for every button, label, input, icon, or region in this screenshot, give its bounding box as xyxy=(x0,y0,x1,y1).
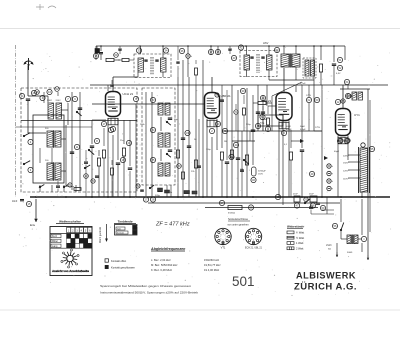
speaker terminal xyxy=(358,236,367,241)
svg-text:1: 1 xyxy=(253,233,254,235)
label LS13 xyxy=(326,245,332,251)
svg-text:25nF: 25nF xyxy=(309,194,314,196)
capacitor C41 xyxy=(240,170,244,171)
electrolytic C28 50uF xyxy=(251,167,266,183)
label ZF frequency xyxy=(155,222,190,228)
wire secondary bus xyxy=(148,202,340,204)
tube V1 UCH21 xyxy=(106,92,134,132)
oscillator coil LO1 xyxy=(150,97,170,115)
band switch contact S1b xyxy=(23,161,33,173)
svg-text:von unten gesehen: von unten gesehen xyxy=(227,224,249,227)
IF transformer IF2 can xyxy=(240,51,277,77)
IF2 primary coil xyxy=(244,55,250,70)
wire antenna lead xyxy=(27,66,29,96)
node 17 xyxy=(101,121,113,132)
tone cap can (dashed) xyxy=(303,58,316,78)
capacitor C23 xyxy=(225,130,234,197)
svg-text:Wellenschalter: Wellenschalter xyxy=(59,220,82,224)
rotary wafer switch view xyxy=(61,249,79,268)
svg-text:50/50µF: 50/50µF xyxy=(258,171,266,173)
wire osc box verticals xyxy=(146,92,161,196)
svg-text:6,3V: 6,3V xyxy=(336,73,341,75)
wire mains right xyxy=(368,89,370,255)
svg-text:Sockelanschlüsse: Sockelanschlüsse xyxy=(228,218,249,221)
wire AF rail 131 xyxy=(222,130,322,132)
electrolytic C21 xyxy=(179,46,192,77)
resistor wattage legend xyxy=(287,225,304,251)
wire stub y214 xyxy=(311,213,334,215)
wire AF line xyxy=(205,207,318,209)
wire bus x189 xyxy=(188,77,190,197)
svg-text:Instrumentenwiderstand 500Ω/V: Instrumentenwiderstand 500Ω/V, Spannunge… xyxy=(100,291,199,295)
net label HSV xyxy=(263,41,269,45)
wire V1 plate xyxy=(108,77,113,92)
wire inner verticals xyxy=(72,92,80,190)
wire pickup xyxy=(282,115,284,205)
capacitor C40 xyxy=(256,112,265,120)
svg-text:220V~: 220V~ xyxy=(343,156,350,158)
node 4 xyxy=(40,89,52,100)
pencil mark top xyxy=(36,4,56,10)
svg-text:6: 6 xyxy=(220,239,221,241)
svg-text:UCH 21: UCH 21 xyxy=(123,92,134,96)
svg-text:M: Bez. 505/1594 kHz: M: Bez. 505/1594 kHz xyxy=(151,263,178,267)
tube V4 UY1 xyxy=(336,109,361,144)
antenna coil L1 LW xyxy=(47,100,62,119)
padder capacitor xyxy=(70,144,80,153)
heading Abgleichfrequenzen xyxy=(150,247,186,251)
tube V2 UBF21 xyxy=(205,93,232,134)
svg-text:125V~: 125V~ xyxy=(343,171,350,173)
variable capacitor CV1 xyxy=(88,120,99,197)
svg-text:5: 5 xyxy=(253,239,254,241)
band switch contact S1a xyxy=(23,133,33,145)
svg-text:Takt: Takt xyxy=(117,227,121,230)
svg-text:7: 7 xyxy=(219,236,220,238)
antenna coil L3 KW xyxy=(45,160,61,181)
wire mid extra x167 xyxy=(167,185,171,197)
wire V1 pins xyxy=(108,118,118,197)
svg-text:4: 4 xyxy=(255,239,256,241)
mains tap 220V xyxy=(343,155,360,158)
label Antenne xyxy=(66,185,75,188)
capacitor C53 xyxy=(215,93,224,101)
tube socket VT1 xyxy=(215,228,231,244)
svg-text:Lang: Lang xyxy=(52,245,58,248)
wire V3 plate to OPT xyxy=(283,68,285,93)
wire front-end top xyxy=(28,96,48,133)
antenna xyxy=(23,58,34,70)
cap C35 xyxy=(316,203,326,211)
wire transformer bottom xyxy=(361,192,363,197)
wire mid extra x242 xyxy=(241,131,243,197)
capacitor C26 xyxy=(236,158,240,159)
svg-text:¼ Watt: ¼ Watt xyxy=(296,231,304,235)
wire stub x250 xyxy=(249,131,251,141)
output transformer OPT2 xyxy=(347,235,358,245)
capacitor C7 xyxy=(116,157,126,197)
capacitor block 3 xyxy=(184,191,197,195)
resistor R33 xyxy=(111,160,114,197)
wire V4 top xyxy=(335,85,350,109)
ground arrow chassis xyxy=(30,199,38,227)
svg-text:ECH 21, UBL 21: ECH 21, UBL 21 xyxy=(245,248,263,250)
frame dash-dot left border xyxy=(15,45,17,197)
mains tap 125V xyxy=(343,170,360,173)
svg-text:1 Watt: 1 Watt xyxy=(296,241,304,245)
svg-text:8: 8 xyxy=(220,234,221,236)
dark component top-left xyxy=(95,46,100,53)
model number 501 xyxy=(232,273,255,289)
svg-text:150/260 kHz: 150/260 kHz xyxy=(204,258,220,262)
IF2 secondary coil xyxy=(267,55,273,70)
cathode bypass C30 xyxy=(300,120,304,197)
label VT1 xyxy=(221,246,226,250)
wire bus x178 xyxy=(177,77,179,197)
svg-text:ZF = 477 kHz: ZF = 477 kHz xyxy=(155,222,190,228)
filter electrolytics xyxy=(324,151,340,191)
capacitor C31 25nF xyxy=(293,194,300,209)
wire grid feed xyxy=(92,119,106,121)
capacitor C45 xyxy=(261,106,265,131)
svg-text:2M: 2M xyxy=(224,141,227,143)
svg-text:19,5/4,77 kHz: 19,5/4,77 kHz xyxy=(204,263,221,267)
wire x272 drop xyxy=(271,96,273,131)
caption switch view xyxy=(52,269,90,273)
wire V3 pins xyxy=(279,121,289,198)
svg-text:6/15kΩ: 6/15kΩ xyxy=(228,213,235,215)
wire screen rail xyxy=(90,84,388,86)
V4 bottom node circles xyxy=(339,138,350,142)
scanner artifact line top xyxy=(0,28,400,30)
svg-text:Kontakt geschlossen: Kontakt geschlossen xyxy=(111,266,135,270)
heading Tonabnehmerbuchse xyxy=(227,218,250,227)
note line 1 xyxy=(100,284,192,288)
oscillator coil enclosure (dashed) xyxy=(142,88,175,185)
svg-text:4: 4 xyxy=(225,239,226,241)
svg-text:7: 7 xyxy=(250,236,251,238)
box pickup input xyxy=(258,115,283,132)
push switch table xyxy=(115,225,138,236)
alignment row M xyxy=(151,263,221,267)
svg-text:200C: 200C xyxy=(56,100,62,102)
wire AVC line xyxy=(21,120,137,122)
wire top left drop xyxy=(95,46,97,60)
node 40 xyxy=(215,121,227,133)
resistor R3 grid xyxy=(97,150,100,197)
IF1 primary coil xyxy=(138,58,144,72)
node 53 xyxy=(337,138,349,143)
svg-text:50nF: 50nF xyxy=(286,126,292,128)
wire chassis bus xyxy=(30,196,390,198)
svg-text:8: 8 xyxy=(251,234,252,236)
resistor R42 xyxy=(195,60,198,85)
wire det link xyxy=(232,140,255,142)
labels small values xyxy=(120,119,288,151)
svg-text:5: 5 xyxy=(222,239,223,241)
resistor R14 cathode xyxy=(220,120,223,197)
heater dropper cluster xyxy=(332,46,343,85)
wire left return xyxy=(16,126,93,128)
capacitor C1 antenna coupling xyxy=(19,90,36,133)
IF transformer IF1 can xyxy=(134,54,171,78)
svg-text:40µF: 40µF xyxy=(334,151,340,153)
svg-text:ALBISWERK: ALBISWERK xyxy=(296,271,356,281)
svg-text:Kontakt: Kontakt xyxy=(117,231,124,234)
node 7 xyxy=(65,96,77,101)
svg-text:25nF: 25nF xyxy=(293,194,298,196)
switch arm extra xyxy=(84,165,90,178)
svg-text:2 Watt: 2 Watt xyxy=(296,247,304,251)
wire left inner xyxy=(40,148,52,163)
node 42 xyxy=(231,45,243,61)
switch arm mid xyxy=(149,185,154,189)
fuse F1 xyxy=(361,143,375,152)
mains switch S2 xyxy=(332,222,343,230)
label 220k xyxy=(168,192,173,194)
mains tap 150V xyxy=(343,162,360,165)
label 500 xyxy=(347,252,353,254)
heading Wellenschalter xyxy=(56,220,84,224)
wire right end drop xyxy=(314,46,345,131)
capacitor C2 10nF xyxy=(12,200,32,207)
svg-text:6: 6 xyxy=(251,239,252,241)
wire x296 drop xyxy=(296,85,302,120)
IF2 trimmers xyxy=(250,57,264,58)
capacitor C52 xyxy=(136,184,144,191)
svg-text:Spannungen bei Mittelwellen g: Spannungen bei Mittelwellen gegen Chassi… xyxy=(100,284,192,288)
svg-text:10nF: 10nF xyxy=(12,201,18,203)
node pair right of V3 xyxy=(306,85,319,131)
scanner artifact line bottom xyxy=(0,309,400,311)
oscillator coil LO2 xyxy=(150,127,170,147)
IF1 core xyxy=(151,57,153,75)
svg-text:Tonblende: Tonblende xyxy=(117,220,132,224)
wire bus x183 xyxy=(182,60,184,197)
resistor R41 xyxy=(243,95,246,131)
capacitor C44 xyxy=(91,176,99,183)
wire IF2 drops xyxy=(247,46,270,80)
wire osc grid xyxy=(133,96,138,197)
wire left col extra xyxy=(35,87,60,103)
label 175V xyxy=(315,127,321,129)
svg-text:520p: 520p xyxy=(155,195,161,197)
resistor R40 xyxy=(68,183,81,191)
label 4.7nF xyxy=(300,83,312,97)
V4 top node circles xyxy=(341,94,351,103)
wire det column x258 xyxy=(258,85,263,131)
padder capacitor block 2 xyxy=(165,190,170,193)
diagonal wire AF xyxy=(272,82,302,96)
wire bus x196 xyxy=(195,85,197,197)
IF2 core xyxy=(257,54,259,73)
AM detector node xyxy=(240,88,247,95)
label V3 xyxy=(262,99,272,103)
wire V3 grid xyxy=(268,105,276,107)
wire det verticals xyxy=(222,85,253,197)
wire grid rail xyxy=(92,103,204,105)
capacitor C11 xyxy=(181,130,190,139)
trimmer cap front xyxy=(76,108,82,116)
svg-text:ZÜRICH A.G.: ZÜRICH A.G. xyxy=(294,282,357,292)
IF1 trimmers xyxy=(144,60,158,61)
wire x314 xyxy=(313,46,315,131)
node 57 xyxy=(219,194,280,210)
resistor R12 dropper xyxy=(106,58,120,61)
capacitor C9 xyxy=(128,120,132,197)
tone resistor R24 xyxy=(228,206,242,215)
capacitor C13 padder xyxy=(155,190,163,197)
diode load resistor R16 xyxy=(230,142,238,158)
tube V3 UBL21 xyxy=(276,93,292,136)
legend contact open xyxy=(105,259,127,263)
wire speaker down xyxy=(337,243,362,252)
note line 2 xyxy=(100,291,199,295)
capacitor C50 xyxy=(56,181,60,192)
output transformer OPT xyxy=(274,46,300,68)
coil shield box xyxy=(33,115,64,183)
svg-text:150V: 150V xyxy=(258,174,263,176)
svg-text:½ Watt: ½ Watt xyxy=(296,236,304,240)
resistor R31 top xyxy=(114,53,134,62)
wire V1 to IF1 xyxy=(113,72,138,77)
oscillator coil LO3 xyxy=(150,157,170,176)
capacitor C54 xyxy=(309,203,313,214)
IF1 secondary coil xyxy=(161,58,167,72)
cathode resistor R20 xyxy=(289,130,292,197)
Albiswerk Zurich logo xyxy=(294,271,357,292)
wire x322 xyxy=(321,85,323,197)
capacitor C32 25nF xyxy=(309,194,317,209)
labels caps V3 xyxy=(286,126,306,131)
band switch enclosure (dashed) xyxy=(21,88,137,192)
node 27 xyxy=(143,197,155,202)
wire stub x327 xyxy=(322,197,334,214)
wire V2 pins xyxy=(207,119,217,197)
heading Tonblende xyxy=(114,220,136,224)
wire V4 pins xyxy=(338,136,348,198)
wire IF1 drops xyxy=(141,46,164,77)
svg-text:Wenn gedrückt: Wenn gedrückt xyxy=(99,227,102,243)
svg-text:UY1: UY1 xyxy=(354,113,360,117)
trimmer caps osc xyxy=(166,118,172,157)
wire B+ node xyxy=(269,67,314,80)
alignment row K xyxy=(151,268,220,272)
svg-text:5Ω: 5Ω xyxy=(328,249,331,251)
wire bus x203 xyxy=(202,60,204,197)
tone switch xyxy=(304,199,309,204)
svg-text:150V~: 150V~ xyxy=(343,163,350,165)
mains plug arrows xyxy=(336,252,369,260)
wire HT+ top rail xyxy=(96,45,345,47)
node 49 xyxy=(309,171,314,176)
arrow wenn gedrueckt xyxy=(99,224,108,243)
power transformer T1 xyxy=(359,147,370,193)
svg-text:175V: 175V xyxy=(315,127,321,129)
resistor R4 cathode xyxy=(102,128,105,197)
svg-text:Kontakt offen: Kontakt offen xyxy=(111,259,127,263)
svg-text:1: 1 xyxy=(222,233,223,235)
label ECH21 xyxy=(245,248,263,250)
svg-text:Widerstände: Widerstände xyxy=(287,225,304,229)
antenna coil L2 MW xyxy=(45,128,61,148)
node 75 xyxy=(304,197,308,201)
padder capacitor block 1 xyxy=(158,188,163,192)
resistor R5 xyxy=(122,120,131,197)
svg-text:19 4,06 MHz: 19 4,06 MHz xyxy=(204,268,220,272)
tube socket octal xyxy=(245,228,261,244)
contacts bottom row xyxy=(39,185,76,193)
AGC resistor R17 xyxy=(253,95,272,104)
node 33 xyxy=(136,48,168,53)
svg-text:Mittel: Mittel xyxy=(52,240,58,243)
svg-text:Erde: Erde xyxy=(30,224,36,227)
volume potentiometer P1 xyxy=(240,155,249,171)
tick marks rail xyxy=(100,45,335,47)
junction dots bus xyxy=(35,196,363,198)
wire det column x267 xyxy=(266,85,268,106)
small caps rail top xyxy=(118,46,231,54)
svg-text:500Ω: 500Ω xyxy=(347,252,353,254)
node 74 xyxy=(234,104,238,131)
svg-text:110V~: 110V~ xyxy=(343,179,350,181)
resistor R9 xyxy=(176,150,179,158)
scan noise specks xyxy=(19,47,391,296)
wire coil links xyxy=(61,103,68,185)
wire x176 up xyxy=(176,46,179,77)
capacitor C20 rail xyxy=(93,46,103,60)
node 37 xyxy=(208,46,220,55)
heater winding right xyxy=(340,79,370,100)
wire V2 plate xyxy=(211,77,213,93)
band switch contact table xyxy=(50,227,92,276)
wire mains drop xyxy=(341,199,362,235)
alignment row L xyxy=(151,258,220,262)
resistor R30 xyxy=(177,164,185,179)
svg-text:LS13: LS13 xyxy=(326,245,332,247)
svg-text:501: 501 xyxy=(232,273,255,289)
svg-text:VT1: VT1 xyxy=(221,246,226,250)
coupling cap C27 xyxy=(251,123,261,131)
label 6.3V xyxy=(336,73,341,75)
junction arrow xyxy=(291,139,304,143)
svg-text:Kurz: Kurz xyxy=(52,235,58,238)
grid cap C42 xyxy=(110,80,114,86)
svg-text:Abgleichfrequenzen: Abgleichfrequenzen xyxy=(150,247,186,251)
svg-text:50nF: 50nF xyxy=(300,126,306,128)
resistor R22 xyxy=(319,46,322,85)
resistor R8 xyxy=(191,160,198,173)
mains tap 110V xyxy=(343,178,360,181)
wire under V2 extra xyxy=(197,119,201,197)
svg-text:Ansicht von Anschlußseite: Ansicht von Anschlußseite xyxy=(52,269,90,273)
svg-text:HSV: HSV xyxy=(263,41,269,45)
legend contact closed xyxy=(105,265,135,269)
svg-text:L: Bez. 2,64 kHz: L: Bez. 2,64 kHz xyxy=(151,258,171,262)
capacitor C12 xyxy=(187,146,191,147)
wire switch to OPT xyxy=(341,230,347,239)
capacitor C51 xyxy=(84,150,88,197)
resistor R34 xyxy=(267,106,270,131)
